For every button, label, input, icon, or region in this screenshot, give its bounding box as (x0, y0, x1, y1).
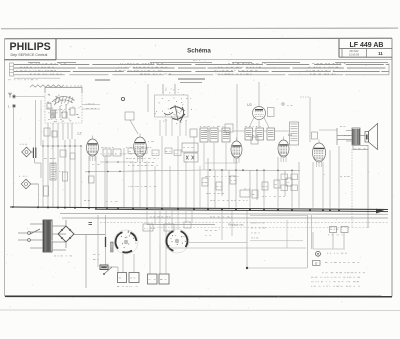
svg-text:Schéma: Schéma (187, 47, 211, 54)
svg-text:U3: U3 (247, 103, 252, 107)
svg-text:L2: L2 (78, 132, 82, 136)
svg-text:L: L (8, 105, 10, 109)
svg-text:Dép SERVICE Central: Dép SERVICE Central (11, 53, 48, 57)
svg-text:PHILIPS: PHILIPS (10, 41, 51, 53)
svg-text:LF 449 AB: LF 449 AB (350, 42, 384, 49)
svg-text:11: 11 (378, 51, 383, 56)
svg-text:Réglage osc.: Réglage osc. (228, 223, 245, 227)
svg-text:12.65.59: 12.65.59 (349, 53, 360, 57)
svg-text:RN 942: RN 942 (350, 49, 359, 53)
